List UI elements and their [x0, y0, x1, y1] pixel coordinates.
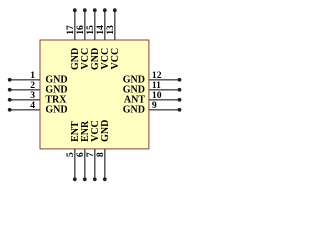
pin 14 VCC (top): [95, 8, 111, 69]
IC body U1: [40, 40, 149, 149]
svg-text:13: 13: [105, 25, 116, 35]
pin 8 GND (bottom): [95, 120, 111, 182]
wire pin 1: [10, 79, 40, 81]
svg-text:9: 9: [152, 100, 157, 111]
junction dot pin 7: [93, 177, 97, 181]
svg-text:GND: GND: [45, 105, 67, 116]
wire pin 16: [84, 10, 86, 40]
pin 3 TRX (left): [8, 90, 67, 106]
pin 9 GND (right): [123, 100, 182, 116]
wire pin 13: [114, 10, 116, 40]
junction dot pin 16: [83, 8, 87, 12]
wire pin 9: [149, 109, 180, 111]
junction dot pin 8: [103, 177, 107, 181]
pin 15 GND (top): [85, 8, 101, 70]
pin 16 VCC (top): [75, 8, 91, 69]
junction dot pin 9: [178, 108, 182, 112]
wire pin 14: [104, 10, 106, 40]
junction dot pin 14: [103, 8, 107, 12]
wire pin 6: [84, 149, 86, 179]
junction dot pin 1: [8, 78, 12, 82]
wire pin 5: [74, 149, 76, 179]
wire pin 10: [149, 99, 180, 101]
svg-text:GND: GND: [100, 120, 111, 142]
pin 4 GND (left): [8, 100, 68, 116]
pin 10 ANT (right): [124, 90, 182, 106]
wire pin 11: [149, 89, 180, 91]
pin 11 GND (right): [123, 80, 182, 96]
junction dot pin 13: [113, 8, 117, 12]
wire pin 8: [104, 149, 106, 179]
wire pin 12: [149, 79, 180, 81]
pin 17 GND (top): [65, 8, 81, 70]
junction dot pin 10: [178, 98, 182, 102]
junction dot pin 15: [93, 8, 97, 12]
pin 13 VCC (top): [105, 8, 121, 69]
junction dot pin 2: [8, 88, 12, 92]
svg-text:4: 4: [30, 100, 35, 111]
pin 12 GND (right): [123, 70, 182, 86]
pin 6 ENR (bottom): [75, 120, 91, 181]
junction dot pin 5: [73, 177, 77, 181]
pin 7 VCC (bottom): [85, 120, 101, 181]
wire pin 15: [94, 10, 96, 40]
junction dot pin 6: [83, 177, 87, 181]
pin 1 GND (left): [8, 70, 68, 86]
wire pin 2: [10, 89, 40, 91]
junction dot pin 3: [8, 98, 12, 102]
pin 2 GND (left): [8, 80, 68, 96]
wire pin 17: [74, 10, 76, 40]
svg-text:VCC: VCC: [110, 48, 121, 70]
pin 5 ENT (bottom): [65, 121, 81, 181]
svg-text:GND: GND: [123, 105, 145, 116]
junction dot pin 17: [73, 8, 77, 12]
wire pin 3: [10, 99, 40, 101]
junction dot pin 11: [178, 88, 182, 92]
junction dot pin 12: [178, 78, 182, 82]
wire pin 7: [94, 149, 96, 179]
wire pin 4: [10, 109, 40, 111]
svg-text:8: 8: [95, 152, 106, 157]
junction dot pin 4: [8, 108, 12, 112]
